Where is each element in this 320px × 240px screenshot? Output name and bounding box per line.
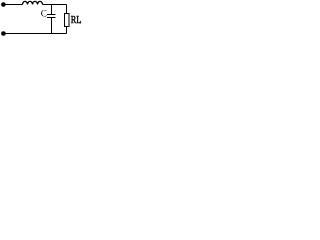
inductor L (4 humps) — [23, 1, 43, 4]
terminal dot top-left — [1, 2, 6, 7]
wire inductor to top-right corner — [43, 4, 67, 6]
capacitor C bottom plate — [47, 17, 56, 19]
bottom rail wire — [5, 33, 67, 35]
L foot serif — [79, 22, 81, 24]
wire down to resistor — [66, 5, 68, 14]
capacitor C top plate — [47, 14, 56, 16]
terminal dot bottom-left — [1, 31, 6, 36]
svg-text:C: C — [41, 9, 47, 19]
resistor RL (box) — [65, 14, 70, 27]
capacitor stub from top rail — [51, 5, 53, 15]
wire resistor to bottom rail — [66, 27, 68, 34]
svg-text:RL: RL — [71, 15, 82, 26]
capacitor stub to bottom rail — [51, 18, 53, 34]
wire top-left to inductor — [5, 4, 23, 6]
background — [0, 0, 82, 37]
